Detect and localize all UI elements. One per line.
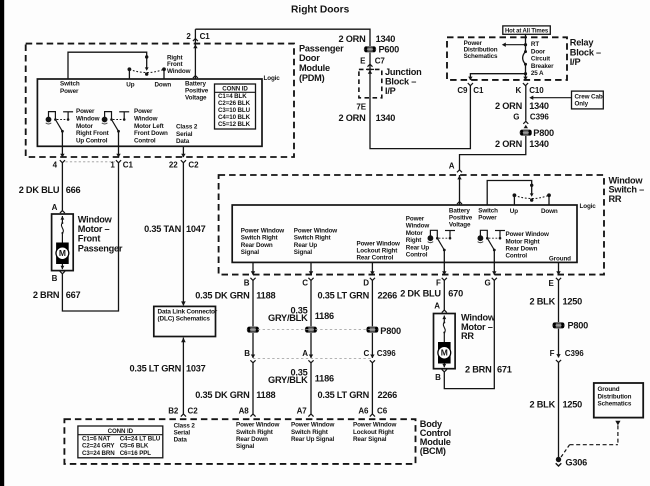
svg-text:A8: A8: [239, 407, 250, 416]
svg-text:Passenger: Passenger: [299, 43, 344, 53]
svg-text:Up: Up: [510, 208, 518, 215]
svg-text:Class 2: Class 2: [174, 422, 196, 429]
svg-text:Rear Signal: Rear Signal: [353, 436, 387, 443]
svg-text:0.35 DK GRN: 0.35 DK GRN: [195, 390, 250, 400]
svg-text:2 DK BLU: 2 DK BLU: [19, 185, 60, 195]
svg-text:Power: Power: [478, 215, 497, 222]
svg-text:Motor: Motor: [76, 123, 94, 130]
svg-text:C1: C1: [473, 86, 484, 95]
svg-text:Power: Power: [76, 108, 95, 115]
svg-text:C396: C396: [377, 349, 396, 358]
svg-text:(DLC) Schematics: (DLC) Schematics: [158, 316, 211, 323]
svg-text:Schematics: Schematics: [464, 53, 498, 60]
svg-text:2 DK BLU: 2 DK BLU: [400, 288, 441, 298]
svg-text:1250: 1250: [563, 400, 583, 410]
svg-text:B: B: [52, 274, 58, 283]
svg-text:Logic: Logic: [580, 203, 597, 210]
svg-text:Junction: Junction: [385, 67, 422, 77]
svg-text:2 BRN: 2 BRN: [33, 290, 60, 300]
svg-text:Module: Module: [299, 63, 330, 73]
svg-text:C6: C6: [377, 407, 388, 416]
svg-text:C3=24 BRN: C3=24 BRN: [82, 450, 115, 457]
svg-text:Power Window: Power Window: [506, 231, 550, 238]
svg-text:Distribution: Distribution: [598, 393, 632, 400]
svg-text:2266: 2266: [378, 290, 398, 300]
svg-text:Rear Control: Rear Control: [357, 255, 394, 262]
svg-text:M: M: [441, 348, 448, 358]
svg-text:Window: Window: [134, 116, 158, 123]
svg-text:Data Link Connector: Data Link Connector: [158, 308, 218, 315]
svg-text:P800: P800: [568, 321, 589, 331]
svg-text:1340: 1340: [529, 101, 549, 111]
svg-text:0.35 DK GRN: 0.35 DK GRN: [195, 290, 250, 300]
svg-text:(PDM): (PDM): [299, 73, 325, 83]
svg-text:Rear Down: Rear Down: [241, 242, 273, 249]
svg-text:1340: 1340: [376, 113, 396, 123]
svg-text:Signal: Signal: [236, 443, 255, 450]
svg-text:Motor Left: Motor Left: [134, 123, 165, 130]
svg-text:2 BRN: 2 BRN: [465, 365, 492, 375]
svg-text:1047: 1047: [186, 224, 206, 234]
svg-text:Power: Power: [60, 88, 79, 95]
svg-text:Switch Right: Switch Right: [236, 429, 274, 436]
svg-text:I/P: I/P: [570, 57, 581, 67]
svg-text:Switch Right: Switch Right: [291, 429, 329, 436]
svg-text:D: D: [363, 279, 369, 288]
svg-text:Serial: Serial: [176, 131, 193, 138]
svg-text:F: F: [550, 349, 555, 358]
svg-text:Power: Power: [134, 108, 153, 115]
svg-text:Down: Down: [155, 81, 172, 88]
svg-text:Switch: Switch: [60, 81, 80, 88]
svg-text:Front Down: Front Down: [134, 130, 168, 137]
svg-text:C1=6 NAT: C1=6 NAT: [82, 435, 110, 442]
svg-text:A7: A7: [297, 407, 308, 416]
svg-text:Window: Window: [406, 223, 430, 230]
svg-text:GRY/BLK: GRY/BLK: [268, 375, 308, 385]
svg-text:670: 670: [448, 288, 463, 298]
svg-text:Motor –: Motor –: [78, 224, 110, 234]
svg-text:C9: C9: [457, 86, 468, 95]
svg-text:A: A: [302, 349, 308, 358]
svg-text:(BCM): (BCM): [420, 446, 446, 456]
svg-text:Door: Door: [531, 48, 546, 55]
svg-text:0.35 TAN: 0.35 TAN: [144, 224, 181, 234]
svg-text:Motor Right: Motor Right: [506, 238, 541, 245]
svg-text:Voltage: Voltage: [449, 222, 471, 229]
svg-text:A: A: [449, 162, 455, 171]
svg-text:2: 2: [186, 32, 191, 41]
svg-text:E: E: [549, 279, 555, 288]
svg-text:Power: Power: [406, 216, 425, 223]
svg-text:P800: P800: [533, 128, 554, 138]
svg-text:4: 4: [53, 160, 58, 169]
svg-text:1188: 1188: [256, 390, 275, 400]
svg-text:0.35 LT GRN: 0.35 LT GRN: [317, 390, 369, 400]
svg-text:C4=10 BLK: C4=10 BLK: [218, 114, 251, 121]
svg-text:C1: C1: [123, 160, 134, 169]
svg-text:Rear Down: Rear Down: [236, 436, 268, 443]
svg-text:Right Front: Right Front: [76, 130, 110, 137]
svg-text:B: B: [244, 349, 250, 358]
svg-text:Rear Down: Rear Down: [506, 246, 538, 253]
svg-text:2 BLK: 2 BLK: [530, 296, 556, 306]
svg-text:1037: 1037: [186, 363, 206, 373]
svg-text:Circuit: Circuit: [531, 56, 551, 63]
svg-text:2 ORN: 2 ORN: [495, 101, 523, 111]
svg-text:2 ORN: 2 ORN: [339, 113, 367, 123]
svg-text:Control: Control: [506, 253, 528, 260]
svg-text:C2=24 GRY: C2=24 GRY: [82, 443, 115, 450]
svg-text:Rear Up: Rear Up: [406, 244, 430, 251]
svg-text:B: B: [435, 373, 441, 382]
svg-text:Down: Down: [541, 208, 558, 215]
svg-text:Block –: Block –: [570, 47, 601, 57]
svg-text:Rear Up: Rear Up: [294, 242, 318, 249]
svg-text:C: C: [363, 349, 369, 358]
svg-text:2 ORN: 2 ORN: [495, 139, 523, 149]
svg-text:Power Window: Power Window: [291, 422, 335, 429]
svg-text:Power Window: Power Window: [353, 422, 397, 429]
svg-text:Signal: Signal: [294, 249, 313, 256]
svg-text:Only: Only: [575, 100, 589, 107]
svg-text:1188: 1188: [256, 290, 275, 300]
svg-text:M: M: [59, 248, 66, 258]
svg-text:G306: G306: [565, 457, 587, 467]
svg-text:1186: 1186: [315, 311, 334, 321]
svg-text:671: 671: [497, 365, 512, 375]
svg-text:2 ORN: 2 ORN: [339, 34, 367, 44]
svg-text:Right: Right: [406, 237, 423, 244]
svg-text:C7: C7: [375, 56, 386, 65]
svg-text:Power Window: Power Window: [236, 422, 280, 429]
svg-text:Door: Door: [299, 53, 320, 63]
svg-text:667: 667: [66, 290, 81, 300]
svg-text:K: K: [515, 86, 521, 95]
svg-text:C396: C396: [530, 113, 549, 122]
svg-text:Relay: Relay: [570, 38, 595, 48]
svg-text:C2: C2: [188, 160, 199, 169]
svg-text:1340: 1340: [529, 139, 549, 149]
svg-text:Control: Control: [406, 252, 428, 259]
svg-text:CONN ID: CONN ID: [108, 428, 134, 435]
svg-text:Data: Data: [174, 437, 188, 444]
svg-text:Breaker: Breaker: [531, 63, 554, 70]
svg-text:Motor: Motor: [406, 230, 424, 237]
svg-text:0.35 LT GRN: 0.35 LT GRN: [317, 290, 369, 300]
svg-text:Passenger: Passenger: [78, 243, 123, 253]
svg-text:C4=24 LT BLU: C4=24 LT BLU: [120, 435, 161, 442]
svg-text:Hot at All Times: Hot at All Times: [505, 28, 549, 34]
svg-text:C1=4 BLK: C1=4 BLK: [218, 93, 247, 100]
svg-text:F: F: [436, 279, 441, 288]
svg-text:Class 2: Class 2: [176, 124, 198, 131]
svg-text:C: C: [302, 279, 308, 288]
svg-text:Up: Up: [126, 81, 134, 88]
svg-text:25 A: 25 A: [531, 70, 544, 77]
svg-text:Window: Window: [167, 68, 191, 75]
svg-text:Lockout Right: Lockout Right: [357, 248, 399, 255]
svg-text:Front: Front: [78, 234, 101, 244]
svg-text:CONN ID: CONN ID: [222, 86, 248, 93]
svg-text:Rear Up Signal: Rear Up Signal: [291, 436, 334, 443]
svg-text:C1: C1: [200, 32, 211, 41]
svg-text:Switch Right: Switch Right: [294, 235, 332, 242]
svg-text:7E: 7E: [356, 103, 366, 112]
svg-text:Block –: Block –: [385, 76, 416, 86]
svg-text:B2: B2: [168, 407, 179, 416]
svg-text:E: E: [360, 56, 366, 65]
svg-text:Ground: Ground: [549, 256, 571, 263]
svg-text:666: 666: [66, 185, 81, 195]
svg-text:A: A: [52, 203, 58, 212]
svg-text:Window: Window: [76, 116, 100, 123]
svg-text:Up Control: Up Control: [76, 137, 108, 144]
svg-text:A: A: [434, 301, 440, 310]
svg-text:Serial: Serial: [174, 430, 191, 437]
svg-text:C2: C2: [188, 407, 199, 416]
svg-text:Power Window: Power Window: [294, 228, 338, 235]
svg-text:C2=26 BLK: C2=26 BLK: [218, 100, 251, 107]
svg-text:Data: Data: [176, 138, 190, 145]
svg-text:0.35 LT GRN: 0.35 LT GRN: [129, 363, 181, 373]
svg-text:Lockout Right: Lockout Right: [353, 429, 395, 436]
svg-text:1250: 1250: [563, 296, 583, 306]
svg-text:Schematics: Schematics: [598, 401, 632, 408]
svg-text:Voltage: Voltage: [185, 94, 207, 101]
svg-text:1340: 1340: [376, 34, 396, 44]
svg-text:B: B: [244, 279, 250, 288]
svg-text:2 BLK: 2 BLK: [530, 400, 556, 410]
svg-text:G: G: [513, 113, 519, 122]
svg-text:C5=6 BLK: C5=6 BLK: [120, 443, 149, 450]
svg-text:I/P: I/P: [385, 86, 396, 96]
svg-text:Control: Control: [134, 137, 156, 144]
svg-text:C5=12 BLK: C5=12 BLK: [218, 121, 251, 128]
svg-text:Right Doors: Right Doors: [291, 5, 350, 16]
svg-text:1186: 1186: [315, 373, 334, 383]
svg-text:C6=16 PPL: C6=16 PPL: [120, 450, 152, 457]
svg-text:P800: P800: [380, 326, 401, 336]
svg-text:Switch Right: Switch Right: [241, 235, 279, 242]
svg-text:RR: RR: [461, 331, 474, 341]
svg-text:Ground: Ground: [598, 386, 620, 393]
svg-text:C10: C10: [529, 86, 544, 95]
svg-text:GRY/BLK: GRY/BLK: [268, 313, 308, 323]
svg-text:Power Window: Power Window: [357, 240, 401, 247]
svg-text:C3=10 BLU: C3=10 BLU: [218, 107, 251, 114]
svg-text:2266: 2266: [378, 390, 398, 400]
svg-text:C396: C396: [565, 349, 584, 358]
svg-text:Crew Cab: Crew Cab: [575, 93, 603, 100]
svg-text:Power Window: Power Window: [241, 228, 285, 235]
svg-text:22: 22: [169, 160, 178, 169]
svg-text:Signal: Signal: [241, 249, 260, 256]
svg-text:Window: Window: [78, 214, 113, 224]
svg-text:G: G: [484, 279, 490, 288]
svg-text:P600: P600: [379, 44, 400, 54]
svg-text:RR: RR: [609, 194, 622, 204]
svg-text:Logic: Logic: [264, 75, 281, 82]
svg-text:RT: RT: [531, 41, 539, 48]
svg-text:A6: A6: [358, 407, 369, 416]
